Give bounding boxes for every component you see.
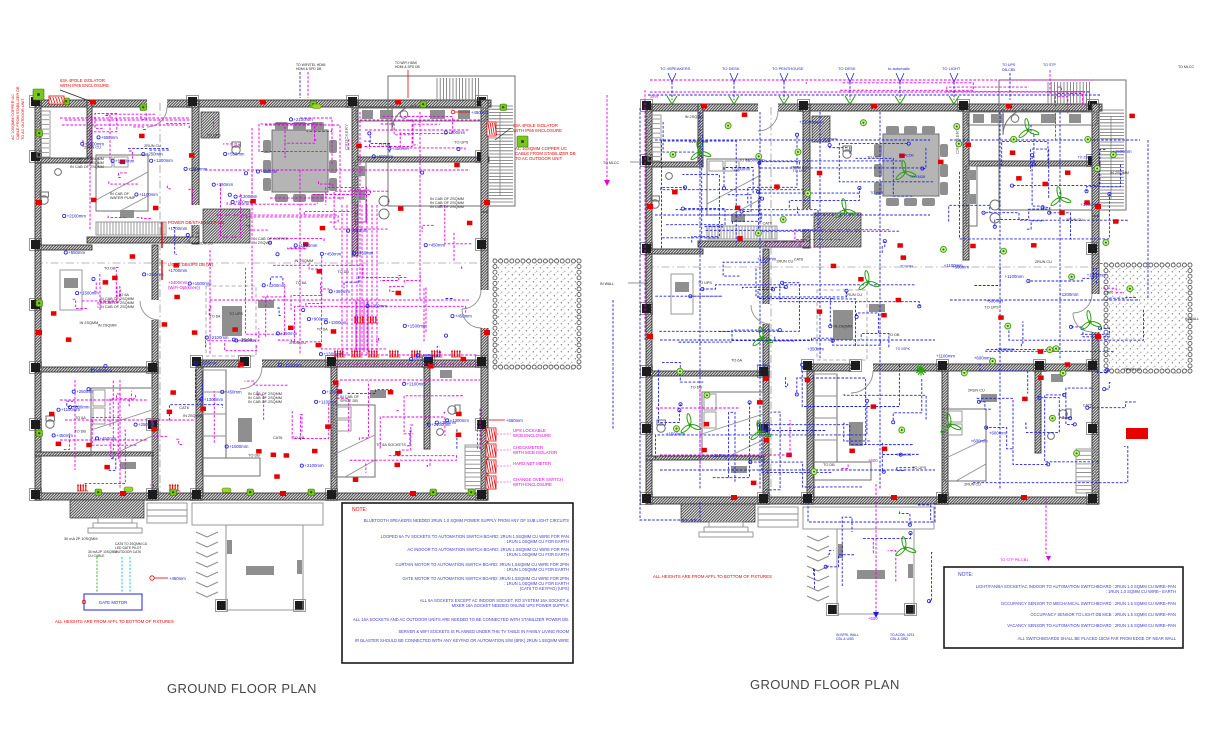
svg-text:TO 6A SOCKETS: TO 6A SOCKETS (376, 443, 406, 447)
svg-text:GATE MOTOR: GATE MOTOR (99, 600, 128, 605)
socket box R74 (red) (672, 190, 678, 195)
magenta bottom-left runs (60, 399, 148, 401)
socket box R78 (red) (881, 313, 887, 318)
svg-text:+1500mm: +1500mm (666, 431, 686, 436)
ceiling fan F3 (895, 160, 916, 180)
wire W53 (magenta) (82, 268, 120, 301)
red meter box right (487, 122, 496, 136)
socket box R16 (red) (256, 449, 262, 454)
svg-text:+600mm: +600mm (952, 265, 969, 270)
magenta top corridor run (60, 117, 190, 119)
meter: hard net meter (486, 460, 496, 473)
svg-text:TO UPS: TO UPS (793, 169, 808, 173)
svg-text:2RUN CU: 2RUN CU (289, 341, 306, 345)
socket box R26 (red) (170, 390, 176, 395)
socket box R34 (red) (454, 163, 460, 168)
wire W183 (blue) (979, 402, 991, 409)
ceiling fan F10 (940, 413, 961, 433)
sensor G28 (green) (1011, 136, 1017, 142)
svg-text:TO 2SPK: TO 2SPK (896, 347, 911, 351)
socket box R27 (red) (120, 160, 126, 165)
wire W46 (magenta) (390, 286, 404, 291)
svg-text:+250mm: +250mm (76, 389, 93, 394)
wire W64 (magenta) (64, 434, 70, 449)
sensor G17 (green) (1060, 370, 1066, 376)
svg-text:TO 6A: TO 6A (296, 281, 307, 285)
magenta right-plan bottom-left runs (656, 407, 740, 409)
svg-text:+450mm: +450mm (225, 389, 242, 394)
socket box R50 (red) (174, 295, 180, 300)
wire W107 (blue) (759, 161, 923, 168)
wire W38 (magenta) (306, 256, 322, 307)
V connector (green) (729, 96, 739, 104)
sensor G23 (green) (670, 151, 676, 157)
wire W153 (blue) (713, 402, 749, 478)
wire W150 (blue) (882, 443, 884, 472)
socket G13 (green) (36, 300, 43, 307)
socket box R43 (red) (91, 198, 97, 203)
wire W4 (magenta) (167, 124, 190, 129)
svg-text:+450mm: +450mm (471, 110, 488, 115)
wire W131 (blue) (679, 330, 780, 342)
wire W216 (magenta) (795, 230, 889, 240)
wire W147 (blue) (655, 401, 866, 458)
wire W103 (blue) (661, 141, 736, 248)
svg-text:+250mm: +250mm (327, 390, 344, 395)
sensor G46 (green) (954, 123, 960, 129)
meter: change over switch (486, 476, 496, 489)
gap blue drop (612, 300, 614, 430)
sensor G45 (green) (899, 427, 905, 433)
socket box R52 (red) (103, 280, 109, 285)
V connector (green) (895, 96, 905, 104)
svg-text:+1500mm: +1500mm (282, 362, 302, 367)
socket box R37 (red) (456, 412, 462, 417)
svg-text:HARD NET METER: HARD NET METER (513, 461, 551, 466)
svg-text:TO 6A: TO 6A (241, 337, 252, 341)
svg-text:+350mm: +350mm (216, 182, 233, 187)
wire W83 (magenta) (213, 391, 215, 443)
wire W56 (magenta) (151, 485, 154, 487)
wire W116 (blue) (733, 213, 762, 224)
wire W98 (blue) (344, 276, 359, 288)
socket box R87 (red) (774, 184, 780, 189)
socket box R60 (red) (1129, 114, 1135, 119)
socket box R94 (red) (1010, 150, 1016, 155)
wire W203 (blue) (842, 517, 852, 586)
svg-text:+1100mm: +1100mm (139, 192, 158, 197)
wire W70 (magenta) (350, 456, 457, 461)
svg-text:+2100mm: +2100mm (209, 335, 229, 340)
wire W42 (magenta) (424, 288, 426, 341)
socket box R59 (red) (757, 400, 763, 405)
svg-text:+1200mm: +1200mm (757, 257, 777, 262)
svg-text:+1700mm: +1700mm (168, 226, 188, 231)
svg-text:+1300mm: +1300mm (204, 397, 224, 402)
svg-text:2RUN CU: 2RUN CU (144, 144, 161, 148)
wire W109 (blue) (705, 226, 722, 227)
meter leader lines (497, 433, 511, 435)
wire W160 (blue) (759, 425, 912, 445)
svg-text:BLUETOOTH SPEAKERS NEEDED 2RUN: BLUETOOTH SPEAKERS NEEDED 2RUN 1.0 SQMM … (364, 518, 570, 523)
svg-text:+600: +600 (868, 458, 878, 463)
socket box R67 (red) (899, 154, 905, 159)
wire W89 (blue) (169, 405, 222, 421)
wire W167 (blue) (960, 172, 1110, 239)
wire W81 (magenta) (189, 189, 192, 204)
extra magenta web (262, 296, 284, 298)
svg-text:+600mm: +600mm (73, 405, 90, 410)
svg-text:: 1RUN 1.0SQMM CU FOR EARTH: : 1RUN 1.0SQMM CU FOR EARTH (504, 552, 569, 557)
svg-text:TO DESK: TO DESK (838, 66, 856, 71)
wire W100 (blue) (128, 148, 169, 150)
wire trunk (blue) (655, 139, 930, 141)
wire W118 (blue) (728, 195, 751, 212)
socket box R76 (red) (901, 255, 907, 260)
wire W143 (blue) (786, 377, 788, 387)
wire W194 (blue) (1063, 416, 1070, 418)
socket box R54 (red) (1031, 243, 1037, 248)
svg-text:IN 2SQMM: IN 2SQMM (183, 414, 202, 418)
wire W67 (magenta) (338, 385, 349, 433)
magenta dining loops (265, 125, 340, 200)
wire W123 (blue) (666, 209, 725, 225)
wire W58 (magenta) (153, 417, 167, 436)
wire W125 (blue) (731, 338, 833, 340)
socket box R44 (red) (56, 442, 62, 447)
svg-text:TO WIFI: TO WIFI (811, 121, 824, 125)
svg-text:+1300mm: +1300mm (328, 320, 348, 325)
svg-text:+550mm: +550mm (506, 418, 523, 423)
wire W145 (blue) (893, 379, 922, 422)
wire W21 (magenta) (365, 140, 370, 149)
wire W44 (magenta) (295, 306, 466, 341)
sensor G33 (green) (1110, 152, 1116, 158)
svg-text:+450mm: +450mm (428, 243, 445, 248)
socket box R23 (red) (320, 226, 326, 231)
socket box R93 (red) (751, 481, 757, 486)
svg-text:TO MLCC: TO MLCC (1178, 65, 1195, 69)
socket box R77 (red) (1084, 200, 1090, 205)
svg-text:TO 2SPK: TO 2SPK (824, 137, 839, 141)
wire W149 (blue) (729, 412, 735, 481)
svg-text:+550mm: +550mm (68, 250, 85, 255)
ceiling fan F11 (1018, 118, 1039, 138)
socket box R5 (red) (192, 330, 198, 335)
svg-text:TO DB: TO DB (337, 270, 349, 274)
socket G11 (green) (468, 489, 475, 496)
wire W171 (blue) (1027, 221, 1045, 229)
svg-text:TO AC OUTDOOR UNIT: TO AC OUTDOOR UNIT (21, 98, 25, 140)
svg-text:TO DB: TO DB (823, 463, 835, 467)
svg-text:+1500mm: +1500mm (1112, 149, 1132, 154)
socket G10 (green) (430, 489, 437, 496)
sensor G25 (green) (725, 123, 731, 129)
wire W210 (magenta) (842, 463, 848, 469)
svg-text:+1300mm: +1300mm (298, 243, 318, 248)
wire W188 (blue) (980, 364, 1028, 394)
wire W68 (magenta) (359, 382, 368, 441)
svg-text:TO AC OUTDOOR UNIT: TO AC OUTDOOR UNIT (515, 156, 563, 161)
sprinkler comb S9 (169, 486, 171, 491)
wire W33 (magenta) (221, 184, 241, 237)
socket box R40 (red) (238, 362, 244, 367)
socket box R68 (red) (966, 143, 972, 148)
socket box R88 (red) (805, 378, 811, 383)
sensor G16 (green) (1127, 286, 1133, 292)
socket box R66 (red) (763, 376, 769, 381)
svg-text:+450mm: +450mm (455, 314, 472, 319)
wire W135 (blue) (830, 299, 855, 346)
wire W7 (magenta) (132, 127, 146, 130)
sensor G42 (green) (780, 217, 786, 223)
leader arrow (60, 90, 95, 103)
sensor G40 (green) (755, 230, 761, 236)
svg-text:2RUN CU: 2RUN CU (196, 242, 213, 246)
svg-text:GROUND FLOOR PLAN: GROUND FLOOR PLAN (167, 681, 317, 696)
svg-text:DB-CB5: DB-CB5 (1002, 68, 1015, 72)
wire W111 (blue) (724, 168, 753, 194)
svg-text:+1500mm: +1500mm (198, 361, 218, 366)
V connector (green) (845, 96, 855, 104)
wire W205 (magenta) (840, 83, 973, 91)
wire W148 (blue) (765, 412, 780, 490)
svg-text:+2100mm: +2100mm (67, 213, 87, 218)
+550mm label red (489, 419, 505, 421)
svg-text:TO KMDB: TO KMDB (910, 175, 926, 179)
wire W35 (magenta) (322, 289, 387, 349)
wire W181 (blue) (986, 350, 1114, 352)
wire W120 (blue) (922, 148, 926, 168)
svg-text:IN 2SQMM: IN 2SQMM (685, 115, 704, 119)
wire W28 (magenta) (304, 211, 355, 226)
wire W76 (magenta) (108, 216, 127, 218)
svg-text:+2100mm: +2100mm (711, 453, 731, 458)
wire W96 (blue) (195, 369, 202, 399)
socket box R35 (red) (456, 433, 462, 438)
svg-text:+600: +600 (868, 616, 878, 621)
gate motor box (84, 594, 142, 610)
wire W88 (blue) (456, 430, 457, 449)
svg-text:TO DB: TO DB (293, 436, 305, 440)
svg-text:+1500mm: +1500mm (229, 444, 249, 449)
wire W5 (magenta) (129, 150, 132, 159)
svg-text:: 1RUN 1.0 SQMM CU WIRE– EARTH: : 1RUN 1.0 SQMM CU WIRE– EARTH (1106, 589, 1176, 594)
svg-text:IN CAB OF 2SQMM: IN CAB OF 2SQMM (430, 205, 464, 209)
wire W164 (blue) (995, 212, 1029, 227)
wire W3 (magenta) (90, 117, 117, 141)
socket box R73 (red) (701, 448, 707, 453)
wire W211 (magenta) (871, 539, 874, 553)
svg-text:2RUN CU: 2RUN CU (84, 146, 101, 150)
wire W6 (magenta) (106, 114, 155, 115)
wire W91 (blue) (173, 227, 177, 254)
socket box R24 (red) (232, 327, 238, 332)
svg-text:2RUN CU: 2RUN CU (968, 389, 985, 393)
wire W179 (blue) (1028, 278, 1093, 281)
svg-text:TO PENTHOUSE: TO PENTHOUSE (772, 66, 804, 71)
svg-text:IN CAB OF 2SQMM: IN CAB OF 2SQMM (248, 400, 282, 404)
wire W27 (magenta) (288, 247, 306, 250)
socket box R13 (red) (162, 322, 168, 327)
wire W55 (magenta) (85, 430, 126, 483)
sensor G32 (green) (1074, 450, 1080, 456)
wire W146 (blue) (662, 362, 703, 382)
svg-text:+1100mm: +1100mm (936, 354, 955, 359)
wire W166 (blue) (1028, 207, 1050, 209)
socket box R36 (red) (353, 477, 359, 482)
magenta top run (650, 91, 1090, 93)
wire W136 (blue) (861, 334, 889, 348)
socket box R6 (red) (317, 269, 323, 274)
wire W69 (magenta) (380, 417, 445, 449)
wire W144 (blue) (844, 393, 926, 419)
svg-text:IN 2SQMM: IN 2SQMM (834, 325, 853, 329)
svg-text:CAT6: CAT6 (1104, 290, 1113, 294)
wire W61 (magenta) (111, 381, 113, 458)
svg-text:NOTE:: NOTE: (958, 572, 973, 578)
svg-text:CAT6: CAT6 (189, 168, 198, 172)
wire W189 (blue) (977, 398, 1048, 464)
ceiling fan F12 (835, 198, 856, 218)
socket box R28 (red) (274, 474, 280, 479)
svg-text:+250mm: +250mm (146, 152, 163, 157)
wire W162 (blue) (1049, 213, 1072, 239)
svg-text:CABLE FROM STABILIZER DB: CABLE FROM STABILIZER DB (16, 86, 20, 140)
note box left (342, 503, 573, 663)
wire W163 (blue) (1032, 155, 1044, 210)
wire W86 (magenta) (244, 381, 287, 385)
wire W178 (blue) (1081, 328, 1110, 334)
svg-text:CU CABLE: CU CABLE (88, 554, 105, 558)
svg-text:OCCUPANCY SENSOR TO LIGHT DB M: OCCUPANCY SENSOR TO LIGHT DB MCB : 2RUN … (1030, 612, 1176, 617)
svg-text:+350mm: +350mm (370, 303, 387, 308)
svg-text:SERVER & WIFI SOCKETS IS PLANN: SERVER & WIFI SOCKETS IS PLANNED UNDER T… (398, 629, 569, 634)
svg-text:TO DB: TO DB (104, 267, 116, 271)
sensor G31 (green) (1085, 136, 1091, 142)
svg-text:TO UPS: TO UPS (867, 156, 882, 160)
wire W79 (magenta) (135, 217, 151, 220)
wire W29 (magenta) (216, 215, 336, 217)
svg-text:MIXER 16A SOCKET NEEDED ONLINE: MIXER 16A SOCKET NEEDED ONLINE UPS POWER… (452, 603, 569, 608)
wire W71 (magenta) (397, 410, 398, 413)
svg-text:2RUN CU: 2RUN CU (845, 293, 862, 297)
svg-text:TO UPS: TO UPS (985, 306, 1000, 310)
socket box R9 (red) (250, 199, 256, 204)
socket G3 (green) (310, 101, 317, 108)
gate motor feeds (96, 557, 98, 592)
svg-text:+1300mm: +1300mm (1087, 272, 1107, 277)
wire W137 (blue) (833, 341, 881, 346)
magenta run along H7 wall (335, 354, 478, 356)
sensor G27 (green) (961, 370, 967, 376)
svg-text:+2100mm: +2100mm (304, 463, 324, 468)
ramp red marker (150, 576, 154, 580)
magenta left margin drop (644, 90, 646, 340)
socket G5 (green) (500, 104, 507, 111)
right margin blue drop (1147, 140, 1149, 300)
socket box R63 (red) (897, 243, 903, 248)
wire W204 (magenta) (947, 87, 1083, 92)
svg-text:+1500mm: +1500mm (1081, 202, 1101, 207)
svg-text:(CAT6 TO KEYPAD) (UPS): (CAT6 TO KEYPAD) (UPS) (520, 586, 570, 591)
svg-text:IN 2SQMM: IN 2SQMM (1110, 171, 1129, 175)
svg-text:2RUN CU: 2RUN CU (776, 260, 793, 264)
socket box R31 (red) (395, 291, 401, 296)
wire W195 (blue) (1045, 395, 1099, 462)
wire W102 (blue) (839, 144, 933, 182)
svg-text:WITH IP65 ENCLOSURE: WITH IP65 ENCLOSURE (513, 128, 562, 133)
wire W165 (blue) (1012, 150, 1105, 186)
svg-text:+2100mm: +2100mm (995, 347, 1015, 352)
sensor G21 (green) (956, 141, 962, 147)
svg-text:+1200mm: +1200mm (1059, 292, 1079, 297)
sensor G34 (green) (756, 153, 762, 159)
svg-text:+250mm: +250mm (280, 331, 297, 336)
svg-text:TO ACDB: TO ACDB (896, 453, 912, 457)
svg-text:: 1RUN 1.0SQMM CU FOR EARTH: : 1RUN 1.0SQMM CU FOR EARTH (504, 539, 569, 544)
svg-text:+1300mm: +1300mm (323, 352, 343, 357)
wire W92 (blue) (277, 308, 281, 316)
svg-text:+600mm: +600mm (971, 438, 988, 443)
wire W47 (magenta) (205, 328, 258, 347)
wire W25 (magenta) (270, 239, 324, 244)
wire W48 (magenta) (98, 286, 120, 308)
wire W93 (blue) (370, 136, 390, 153)
socket box R47 (red) (395, 451, 401, 456)
wire W193 (blue) (1097, 367, 1107, 373)
wire W31 (magenta) (317, 215, 338, 222)
wire W40 (magenta) (273, 265, 408, 277)
wire W2 (magenta) (95, 113, 117, 128)
wire W34 (magenta) (422, 225, 433, 232)
svg-text:VACANCY SENSOR TO AUTOMATION S: VACANCY SENSOR TO AUTOMATION SWITCHBOARD… (1007, 623, 1176, 628)
wire W174 (blue) (1109, 296, 1136, 299)
socket box R14 (red) (336, 389, 342, 394)
socket box R42 (red) (395, 463, 401, 468)
sprinkler comb S3 (368, 352, 370, 357)
svg-text:TO ACDB: TO ACDB (899, 153, 915, 157)
svg-text:OCCUPANCY SENSOR TO MECHANICAL: OCCUPANCY SENSOR TO MECHANICAL SWITCHBOA… (1001, 601, 1176, 606)
wire W52 (magenta) (117, 287, 120, 297)
socket box R91 (red) (817, 309, 823, 314)
socket box R30 (red) (398, 206, 404, 211)
socket box R72 (red) (849, 449, 855, 454)
wire W154 (blue) (679, 404, 681, 406)
svg-text:TO 6A: TO 6A (75, 416, 86, 420)
wire W176 (blue) (1094, 269, 1097, 284)
svg-text:TO 2SPK: TO 2SPK (1078, 155, 1093, 159)
meter: UPS lockable enclosure (486, 428, 496, 441)
socket box R33 (red) (189, 153, 195, 158)
socket G14 (green) (36, 430, 43, 437)
wire W84 (magenta) (301, 415, 302, 440)
wire W59 (magenta) (110, 395, 136, 428)
svg-text:ALL SWITCHBOARDS SHALL BE PLAC: ALL SWITCHBOARDS SHALL BE PLACED 15CM FA… (1018, 636, 1177, 641)
svg-text:WITH IP65 ENCLOSURE: WITH IP65 ENCLOSURE (60, 83, 109, 88)
svg-text:POWER DB/STABILIZER DB: POWER DB/STABILIZER DB (168, 220, 224, 225)
sensor G29 (green) (940, 246, 946, 252)
socket box R80 (red) (970, 244, 976, 249)
svg-text:+600mm: +600mm (986, 299, 1003, 304)
wire W117 (blue) (796, 206, 798, 213)
wire W177 (blue) (975, 267, 1000, 286)
wire W132 (blue) (780, 284, 920, 306)
wire W77 (magenta) (109, 181, 139, 184)
socket box R11 (red) (467, 221, 473, 226)
ceiling fan F6 (680, 413, 701, 433)
svg-text:HDMI & SPD DB: HDMI & SPD DB (296, 67, 322, 71)
